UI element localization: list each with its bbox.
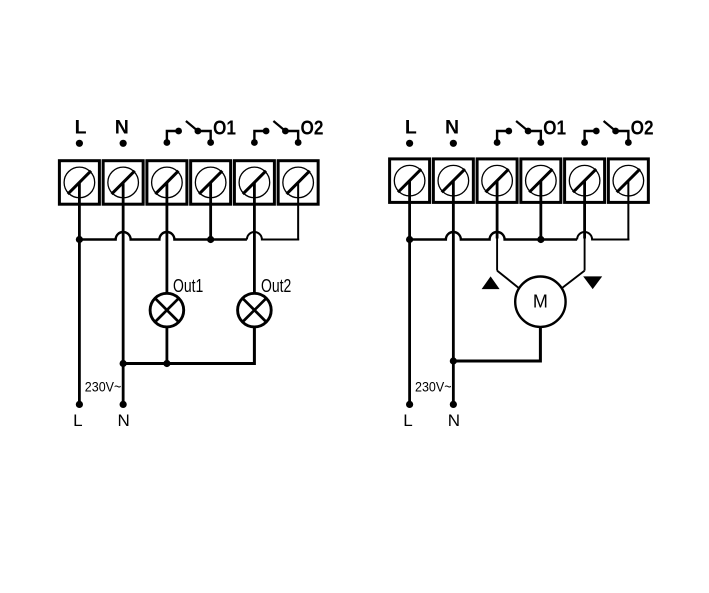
terminal 4 (O1 common, left block) [191,161,231,205]
svg-text:Out2: Out2 [261,275,291,296]
svg-text:230V~: 230V~ [415,379,452,394]
junction dot bus/terminal-4 wire (left) [207,236,214,243]
wire terminal 1 to supply L (right) [408,181,411,405]
lamp Out1 [150,293,184,327]
svg-text:N: N [115,117,129,139]
svg-text:N: N [445,117,459,139]
junction dot return/N wire (left) [120,360,127,367]
wire terminal 4 to bus (left) [209,182,212,239]
relay contact O2 (moving contact / lever) [273,121,301,146]
wire motor right arm (terminal 5 to motor) [562,271,585,289]
relay contact O1 (moving contact / lever) [186,121,214,146]
terminal 2 (N, right block) [433,159,473,203]
terminal 6 (O2 common, left block) [278,161,318,205]
relay contact O1 (moving contact / lever) [516,121,544,146]
direction arrow up (raise) [482,276,500,289]
relay contact O2 (moving contact / lever) [604,121,632,146]
supply node L (left) [76,401,83,408]
terminal 3 (up winding, right block) [477,159,517,203]
bus wire linking L to terminals 4 and 6 (left, with crossover hops) [79,232,247,240]
wire motor left arm (terminal 3 to motor) [497,271,519,289]
supply node N (left) [120,401,127,408]
svg-text:O1: O1 [543,117,566,139]
node dot under label L (right) [406,140,413,147]
relay contact O1 (fixed contact) [164,128,183,146]
wire terminal 6 to bus (left) [297,182,299,240]
return wire motor to N (right) [453,327,540,361]
relay contact O2 (fixed contact) [581,128,600,146]
direction arrow down (lower) [583,276,602,289]
terminal 1 (L, right block) [390,159,430,203]
wire terminal 5 down (motor down-winding feed) [583,181,586,239]
wire terminal 3 to lamp Out1 [165,182,168,292]
junction dot return/Out1 wire (left) [163,360,170,367]
terminal 1 (L, left block) [59,161,99,205]
node dot under label L (left) [76,140,83,147]
svg-text:230V~: 230V~ [85,379,122,394]
junction dot bus/L wire (right) [406,236,413,243]
svg-text:N: N [448,411,460,430]
wire lamp Out1 bottom to return (left) [165,326,168,364]
svg-text:N: N [118,411,130,430]
svg-text:Out1: Out1 [173,275,203,296]
return wire lamps to N (left) [123,326,254,364]
junction dot bus/L wire (left) [76,236,83,243]
svg-text:M: M [533,291,548,311]
svg-text:O2: O2 [300,117,323,139]
terminal 3 (O1 feed, left block) [147,161,187,205]
terminal 6 (common 2, right block) [608,159,648,203]
junction dot bus/terminal-4 wire (right) [537,236,544,243]
svg-text:L: L [75,117,87,139]
junction dot return/N wire (right) [450,357,457,364]
svg-text:O2: O2 [631,117,654,139]
supply node L (right) [406,401,413,408]
node dot under label N (left) [120,140,127,147]
relay contact O2 (fixed contact) [251,128,270,146]
node dot under label N (right) [450,140,457,147]
svg-text:L: L [73,411,82,430]
lamp Out2 [238,293,272,327]
wire terminal 2 to supply N (left) [122,182,125,404]
terminal 2 (N, left block) [103,161,143,205]
svg-text:O1: O1 [213,117,236,139]
bus wire linking L to terminals 4 and 6 (right, with crossover hops) [410,232,577,240]
motor M1 [515,277,565,327]
wire terminal 5 to lamp Out2 [253,182,256,292]
wire terminal 1 to supply L (left) [78,182,81,404]
wire terminal 2 to supply N (right) [452,181,455,405]
wire terminal 6 to bus (right) [627,181,629,241]
supply node N (right) [450,401,457,408]
wire terminal 4 to bus (right) [539,181,542,240]
relay contact O1 (fixed contact) [494,128,513,146]
svg-text:L: L [405,117,417,139]
terminal 4 (common, right block) [521,159,561,203]
terminal 5 (down winding, right block) [565,159,605,203]
wire terminal 3 down (motor up-winding feed) [496,181,499,239]
terminal 5 (O2 feed, left block) [234,161,274,205]
svg-text:L: L [403,411,412,430]
